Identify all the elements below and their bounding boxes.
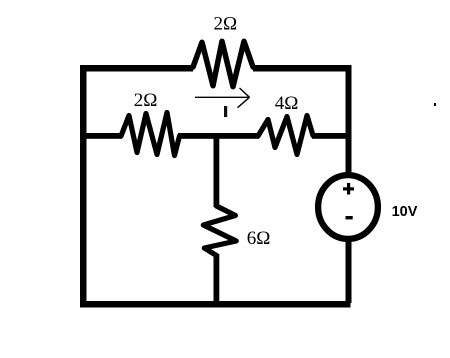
- svg-text:10V: 10V: [392, 204, 418, 220]
- top wire left segment: [80, 65, 193, 72]
- bottom wire: [80, 301, 351, 308]
- svg-text:2Ω: 2Ω: [214, 13, 238, 34]
- resistor R-mid 2ohm zigzag: [121, 113, 180, 156]
- top wire right segment: [253, 65, 352, 72]
- voltage source V1 circle: [318, 175, 378, 239]
- middle wire right segment: [312, 133, 346, 139]
- resistor R-top 2ohm zigzag: [193, 41, 253, 86]
- wire 6ohm lower: [214, 254, 220, 304]
- middle wire left segment: [80, 133, 122, 139]
- plus sign: [343, 187, 354, 190]
- stray dot: [434, 103, 436, 106]
- resistor R 6ohm vertical zigzag: [203, 206, 236, 256]
- label I: [224, 106, 227, 117]
- resistor R 4ohm zigzag: [258, 116, 313, 155]
- minus sign: [346, 216, 353, 219]
- current arrow: [195, 88, 250, 108]
- left wire: [80, 65, 87, 308]
- right wire lower: [346, 240, 352, 303]
- right wire upper: [346, 65, 352, 175]
- svg-text:4Ω: 4Ω: [275, 93, 299, 114]
- wire 6ohm upper: [214, 136, 220, 207]
- svg-text:2Ω: 2Ω: [134, 90, 158, 111]
- middle wire center segment: [178, 133, 259, 139]
- svg-text:6Ω: 6Ω: [247, 228, 271, 249]
